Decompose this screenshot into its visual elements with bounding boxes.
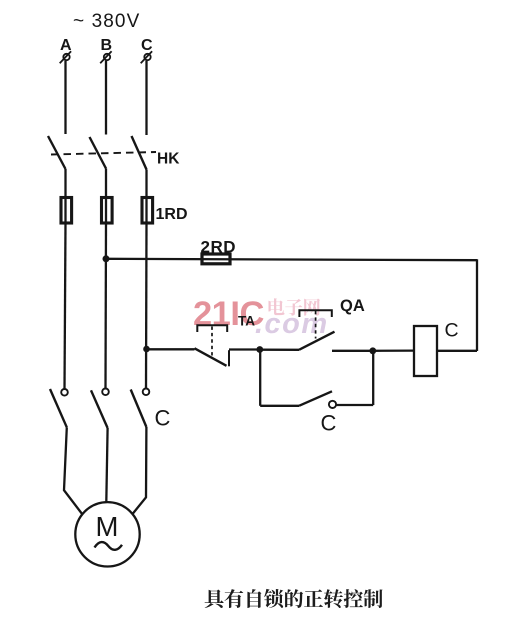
svg-text:1RD: 1RD [156, 206, 188, 223]
knife switch HK pole C blade [132, 136, 147, 170]
caption: self-locking forward-run control [205, 589, 383, 608]
svg-text:2RD: 2RD [201, 237, 237, 256]
fuse 2RD [202, 254, 230, 264]
supply terminal B [100, 51, 111, 63]
fuse 1RD pole A [61, 197, 72, 224]
fuse 1RD pole B [102, 197, 113, 224]
wire phase A switch to fuse [64, 169, 66, 198]
motor M circle [75, 502, 139, 566]
watermark 21IC logo [193, 295, 264, 333]
label HK [157, 151, 180, 168]
wire phase C contact to motor [133, 427, 147, 514]
label QA [340, 297, 365, 315]
main contact C pole C [131, 389, 150, 428]
label C (main contacts) [155, 406, 171, 431]
pushbutton QA dashed link [315, 311, 317, 339]
label TA [238, 314, 255, 329]
motor letter M [96, 511, 119, 542]
wire self-lock branch left drop [259, 350, 261, 406]
fuse 1RD pole C [142, 197, 153, 224]
wire control top rail [106, 259, 477, 260]
svg-text:C: C [321, 411, 337, 436]
svg-text:TA: TA [238, 314, 255, 329]
label C (auxiliary contact) [321, 411, 337, 436]
wire phase C fuse to main contact [145, 224, 148, 389]
wire TA to junction [229, 348, 260, 350]
wire control rail to TA [147, 348, 195, 350]
wire phase B fuse to main contact [104, 224, 107, 389]
wire phase C drop to switch [145, 61, 147, 135]
wire phase B drop to switch [105, 61, 107, 135]
supply terminal C [141, 51, 152, 63]
wire phase B contact to motor [106, 428, 107, 502]
watermark text dianziwang [268, 298, 320, 315]
supply label ~380V [73, 11, 140, 32]
wire right rail down to coil [476, 259, 478, 351]
wire phase C switch to fuse [145, 170, 147, 199]
wire coil to right rail [437, 350, 477, 352]
auxiliary contact C (self-lock) blade [299, 391, 332, 406]
pushbutton TA fixed contact stub [228, 350, 230, 366]
wire junction to coil [373, 349, 414, 351]
pushbutton TA (NC stop): actuator bracket [197, 325, 227, 332]
knife switch HK mechanical link (dashed) [51, 152, 156, 155]
node junction TA-QA [256, 346, 263, 353]
main contact C pole B [91, 389, 109, 429]
main contact C pole A [50, 389, 68, 427]
auxiliary contact C fixed terminal circle [329, 401, 336, 408]
svg-text:M: M [96, 511, 119, 542]
pushbutton QA (NO start): blade [299, 332, 335, 350]
label 1RD [156, 206, 188, 223]
label 2RD [201, 237, 237, 256]
svg-text:QA: QA [340, 297, 365, 315]
svg-text:C: C [155, 406, 171, 431]
wire phase A drop to switch [64, 61, 66, 134]
wire self-lock branch bottom left [260, 405, 299, 407]
wire self-lock right riser [372, 351, 374, 405]
node junction QA output [369, 347, 376, 354]
knife switch HK pole B blade [90, 137, 107, 169]
pushbutton TA blade [195, 348, 227, 366]
svg-text:~ 380V: ~ 380V [73, 11, 140, 32]
pushbutton QA actuator bracket [299, 310, 331, 317]
wire QA to junction 2 [332, 350, 373, 352]
phase label B [101, 37, 113, 54]
node junction on phase B (control feed) [103, 255, 110, 262]
contactor coil C [414, 326, 437, 376]
wire phase A contact to motor [64, 427, 83, 514]
svg-text:C: C [445, 320, 459, 342]
node junction on phase C (control return) [143, 346, 150, 353]
svg-text:HK: HK [157, 151, 180, 168]
supply terminal A [60, 51, 71, 63]
watermark text .com [255, 308, 329, 340]
label C (coil) [445, 320, 459, 342]
svg-text:.com: .com [255, 308, 329, 340]
phase label C [141, 37, 153, 54]
wire phase A fuse to main contact [65, 224, 66, 390]
phase label A [60, 37, 72, 54]
wire phase B switch to fuse [105, 169, 107, 199]
wire self-lock bottom right [336, 404, 373, 406]
wire junction to QA [260, 349, 299, 351]
motor AC tilde [95, 542, 123, 550]
pushbutton TA dashed link [211, 327, 213, 357]
knife switch HK pole A blade [48, 136, 66, 169]
